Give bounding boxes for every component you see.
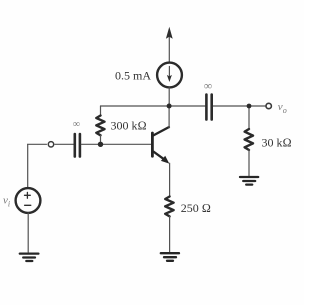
source V1 vi	[16, 188, 41, 213]
input terminal open circle	[48, 142, 53, 147]
current source I 0.5mA	[157, 63, 182, 88]
wire source to node A	[168, 88, 170, 106]
transistor Q1	[152, 127, 169, 164]
source plus	[25, 192, 31, 198]
wire output drop	[248, 106, 250, 129]
ground output	[240, 177, 258, 185]
svg-text:0.5 mA: 0.5 mA	[115, 69, 151, 83]
svg-text:250 Ω: 250 Ω	[181, 201, 211, 215]
ground source	[20, 254, 39, 261]
wire cap to base	[81, 143, 151, 145]
wire emitter down	[169, 163, 171, 196]
supply arrow up	[166, 27, 173, 63]
node D dot	[247, 104, 252, 109]
svg-text:∞: ∞	[73, 119, 80, 130]
capacitor C1 plates	[75, 134, 80, 157]
node A dot	[167, 104, 172, 109]
resistor R1 300k zigzag	[96, 116, 104, 136]
source minus	[25, 204, 31, 206]
wire collector	[168, 106, 170, 128]
output terminal open circle	[266, 103, 271, 108]
svg-text:vi: vi	[3, 195, 10, 209]
wire vsource bottom	[27, 213, 29, 252]
svg-text:30 kΩ: 30 kΩ	[262, 136, 292, 150]
wire terminal to cap	[55, 143, 73, 145]
capacitor C2 plates	[206, 95, 211, 120]
resistor R2 250 zigzag	[165, 197, 173, 217]
wire R2 to ground	[169, 216, 171, 252]
node B dot	[98, 142, 103, 147]
wire input stub	[28, 143, 47, 145]
resistor R3 30k zigzag	[245, 129, 253, 150]
wire R3 to ground	[248, 150, 250, 176]
wire 300k bottom drop	[100, 135, 102, 144]
svg-text:∞: ∞	[204, 80, 212, 92]
wire top horizontal right of cap	[213, 105, 266, 107]
wire vsource top	[27, 144, 29, 188]
svg-text:300 kΩ: 300 kΩ	[111, 119, 147, 133]
wire top horizontal left	[101, 105, 206, 107]
wire 300k top drop	[100, 106, 102, 116]
ground emitter	[161, 253, 179, 261]
svg-text:vo: vo	[278, 101, 287, 115]
